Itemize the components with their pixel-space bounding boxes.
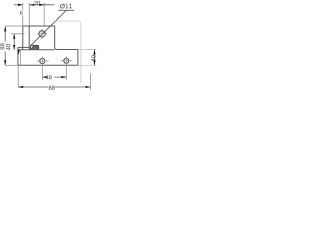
extension lines for dim 88 left — [5, 26, 23, 65]
extension lines for dim 88 bottom — [18, 65, 90, 90]
dimension text "20" — [34, 1, 40, 5]
dimension text "40" left (rotated) — [6, 44, 10, 50]
dimension 48 line and arrows — [42, 76, 66, 78]
dimension 6 leader line and arrows — [14, 4, 23, 6]
hole right (plan view) — [64, 58, 69, 63]
plate top surface line (side view) — [18, 49, 55, 51]
flange inner face (plan view) — [19, 50, 21, 66]
dimension text "88" left (rotated) — [0, 43, 4, 49]
hole right centerlines — [60, 56, 72, 65]
dimension text "88" bottom — [49, 86, 55, 90]
dimension 88 bottom line and arrows — [18, 86, 90, 88]
extension lines for dims 6 and 20 — [23, 3, 29, 26]
rib diagonal edge and leader line to hole — [31, 10, 67, 45]
hole Ø11 centerlines + dim 20 extension — [37, 3, 47, 39]
extension lines for dim 48 — [42, 65, 66, 80]
extension lines for dim 40 right — [78, 49, 97, 65]
dimension text "48" — [46, 75, 52, 79]
plate back edge (plan view) — [18, 46, 30, 48]
extension line for dim 40 left — [11, 33, 25, 35]
flange top edge / rib top edge (side view) — [23, 25, 55, 27]
hole left centerlines — [37, 56, 49, 65]
hole Ø11 in rib (side view) — [39, 31, 45, 37]
dimension 20 line and arrow — [29, 4, 54, 6]
flange outer face (side view) — [22, 26, 24, 50]
flange inner face (side view) — [28, 26, 30, 50]
phantom outline of larger bracket variant — [55, 21, 81, 83]
dimension 40 left line and arrows — [13, 34, 15, 50]
plate front/bottom edge — [18, 64, 78, 66]
section hatch of base plate — [30, 45, 38, 49]
hole left (plan view) — [40, 58, 45, 63]
dimension text "6" — [20, 11, 23, 15]
dimension text "40" right (rotated) — [91, 55, 95, 61]
dimension 88 left line and arrows — [4, 26, 6, 65]
dimension 40 right line and arrows — [94, 49, 96, 65]
rib right face with fillet into plate top edge — [55, 26, 78, 65]
label "Ø11" — [60, 4, 72, 9]
leader shoulder under diameter label — [58, 9, 74, 11]
solid arrow detail at plate top-left junction — [18, 50, 20, 55]
plate left edge (plan view) — [17, 47, 19, 65]
